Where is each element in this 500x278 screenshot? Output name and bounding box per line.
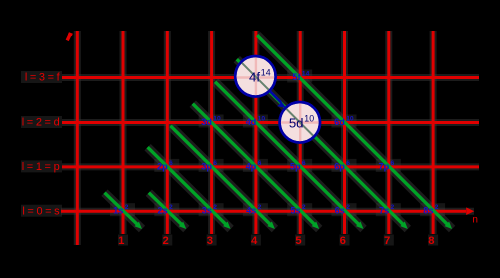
svg-text:5: 5 (295, 235, 301, 247)
svg-text:3: 3 (207, 235, 213, 247)
svg-text:2: 2 (346, 204, 350, 211)
svg-text:l=1=p: l=1=p (22, 161, 63, 173)
svg-text:6d: 6d (334, 117, 345, 127)
svg-text:14: 14 (261, 68, 271, 78)
svg-text:2: 2 (125, 204, 129, 211)
svg-text:2: 2 (213, 204, 217, 211)
svg-text:10: 10 (346, 116, 354, 123)
svg-text:6p: 6p (334, 161, 345, 171)
svg-text:10: 10 (213, 116, 221, 123)
svg-text:6s: 6s (335, 206, 345, 216)
svg-text:5s: 5s (290, 206, 300, 216)
svg-text:10: 10 (258, 116, 266, 123)
svg-text:3d: 3d (201, 117, 212, 127)
svg-text:14: 14 (302, 71, 310, 78)
svg-text:2: 2 (169, 204, 173, 211)
svg-text:4d: 4d (246, 117, 257, 127)
svg-text:5d: 5d (289, 115, 304, 130)
svg-text:1s: 1s (113, 206, 123, 216)
svg-text:4f: 4f (249, 69, 260, 84)
svg-text:2: 2 (435, 204, 439, 211)
svg-text:8: 8 (428, 235, 434, 247)
svg-text:l=3=f: l=3=f (25, 72, 62, 84)
svg-text:6: 6 (391, 160, 395, 167)
svg-text:6: 6 (169, 160, 173, 167)
svg-text:7p: 7p (378, 161, 389, 171)
svg-text:2: 2 (258, 204, 262, 211)
svg-text:5p: 5p (290, 161, 301, 171)
svg-text:3s: 3s (202, 206, 212, 216)
svg-text:4s: 4s (246, 206, 256, 216)
svg-text:8s: 8s (423, 206, 433, 216)
svg-text:6: 6 (213, 160, 217, 167)
svg-text:n: n (472, 215, 478, 226)
svg-text:3p: 3p (201, 161, 212, 171)
svg-text:2p: 2p (157, 161, 168, 171)
svg-text:2: 2 (302, 204, 306, 211)
svg-text:2: 2 (162, 235, 168, 247)
svg-text:7: 7 (384, 235, 390, 247)
svg-text:6: 6 (340, 235, 346, 247)
svg-text:1: 1 (118, 235, 124, 247)
svg-text:10: 10 (304, 114, 314, 124)
svg-text:4p: 4p (246, 161, 257, 171)
svg-text:2s: 2s (157, 206, 167, 216)
svg-text:l=0=s: l=0=s (22, 205, 62, 217)
svg-text:7s: 7s (379, 206, 389, 216)
svg-text:6: 6 (302, 160, 306, 167)
svg-text:4: 4 (251, 235, 258, 247)
svg-text:5f: 5f (292, 72, 301, 82)
svg-text:6: 6 (346, 160, 350, 167)
svg-text:l=2=d: l=2=d (22, 117, 63, 129)
svg-text:2: 2 (391, 204, 395, 211)
svg-text:6: 6 (258, 160, 262, 167)
